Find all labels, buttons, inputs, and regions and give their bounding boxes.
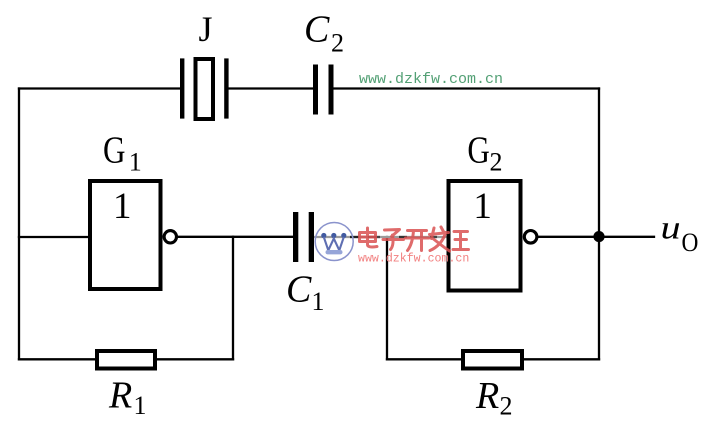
- svg-text:O: O: [682, 229, 699, 257]
- svg-text:1: 1: [473, 186, 492, 227]
- svg-text:2: 2: [490, 148, 503, 177]
- svg-text:u: u: [661, 209, 681, 246]
- svg-text:C: C: [286, 269, 312, 311]
- svg-text:R: R: [108, 375, 132, 417]
- svg-text:www.dzkfw.com.cn: www.dzkfw.com.cn: [358, 253, 469, 266]
- svg-text:1: 1: [312, 287, 325, 316]
- svg-text:C: C: [304, 9, 330, 51]
- svg-text:1: 1: [129, 147, 142, 176]
- svg-text:www.dzkfw.com.cn: www.dzkfw.com.cn: [359, 71, 503, 88]
- svg-text:2: 2: [331, 29, 344, 58]
- svg-text:G: G: [467, 128, 490, 171]
- svg-text:1: 1: [134, 391, 147, 420]
- svg-text:1: 1: [113, 186, 132, 227]
- svg-text:G: G: [103, 128, 126, 171]
- svg-text:J: J: [198, 9, 212, 49]
- svg-text:R: R: [475, 375, 499, 417]
- svg-text:2: 2: [500, 392, 513, 421]
